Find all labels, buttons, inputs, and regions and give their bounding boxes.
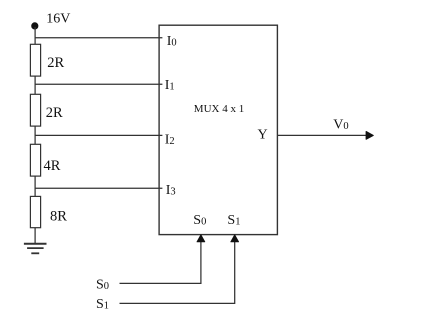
MUX U1 4x1 box [159, 25, 277, 234]
wire S0 select with arrowhead [120, 235, 205, 284]
pin label S0 inside box [193, 213, 206, 228]
label S1 select input [96, 297, 109, 312]
resistor R2 2R [30, 94, 63, 126]
wire rail segment R3 to R4 [34, 176, 36, 196]
wire rail segment R2 to R3 [34, 126, 36, 144]
label 16V [46, 12, 70, 27]
pin label I2 [165, 133, 175, 148]
pin label I1 [165, 78, 175, 93]
pin label S1 inside box [227, 213, 240, 228]
svg-text:8R: 8R [50, 209, 67, 225]
label S0 select input [96, 277, 109, 292]
ground [24, 244, 47, 254]
resistor R3 4R [30, 144, 60, 176]
svg-text:2R: 2R [46, 105, 63, 121]
wire rail segment R1 to R2 [34, 76, 36, 94]
svg-text:MUX 4 x 1: MUX 4 x 1 [194, 103, 244, 115]
wire rail segment R4 to ground [34, 228, 36, 244]
wire input I1 [35, 83, 162, 85]
pin label I0 [167, 34, 177, 49]
wire input I0 [35, 37, 162, 39]
svg-text:4R: 4R [44, 158, 61, 174]
resistor R1 2R [30, 44, 64, 76]
pin label I3 [166, 183, 176, 198]
svg-text:2R: 2R [47, 55, 64, 71]
wire S1 select with arrowhead [120, 235, 239, 304]
svg-text:16V: 16V [46, 12, 70, 27]
wire output Y with arrowhead [277, 132, 373, 140]
resistor R4 8R [30, 196, 67, 227]
wire input I3 [35, 187, 162, 189]
label MUX 4 x 1 [194, 103, 244, 115]
svg-text:Y: Y [258, 127, 268, 142]
wire input I2 [35, 134, 162, 136]
wire rail segment dot to R1 [34, 27, 36, 44]
node VCC dot [31, 22, 38, 29]
pin label Y [258, 127, 268, 142]
label V0 [333, 117, 348, 132]
